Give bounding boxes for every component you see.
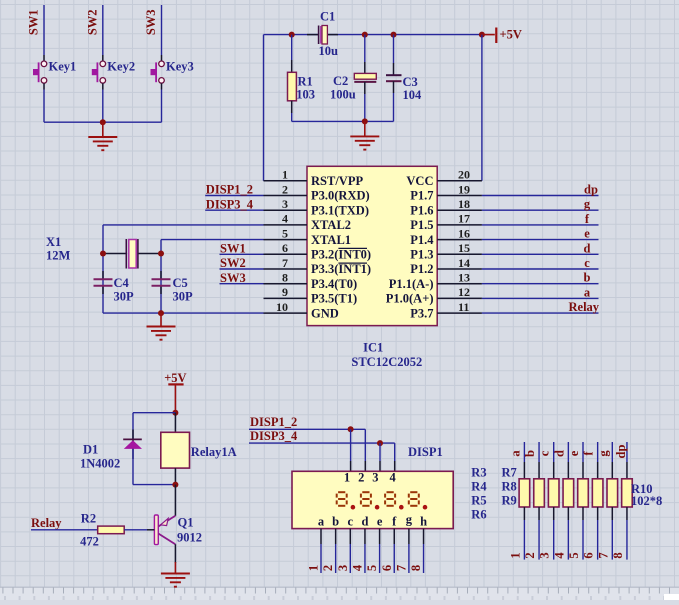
pin number 8 <box>282 271 288 285</box>
resistor R1 <box>288 35 297 122</box>
pin number 3 display bottom <box>336 565 350 571</box>
resistor network element 4 <box>563 479 574 507</box>
wire net g resistor 7 top <box>611 442 613 479</box>
node DISP3_4 display <box>250 429 298 443</box>
pin number 14 <box>458 256 470 270</box>
label SW1 <box>27 9 41 35</box>
pin number 4 <box>282 212 288 226</box>
svg-text:17: 17 <box>458 212 470 226</box>
wire SW1 bottom <box>43 83 45 122</box>
wire net SW1 <box>220 253 264 255</box>
wire net a <box>482 297 599 299</box>
node SW3 <box>220 271 246 285</box>
junction ground rail C2 <box>362 118 368 124</box>
wire relay to collector <box>174 485 176 516</box>
svg-text:7: 7 <box>394 565 408 571</box>
pin number 17 <box>458 212 470 226</box>
wire net DISP3_4 <box>205 209 263 211</box>
label SW2 <box>85 9 99 35</box>
wire display bottom pin 1 <box>320 529 322 573</box>
diode D1 <box>123 430 142 460</box>
label R1 value 103 <box>296 88 315 102</box>
pin number 2 display bottom <box>321 565 335 571</box>
svg-text:+5V: +5V <box>164 371 186 385</box>
ground crystal <box>147 313 176 340</box>
pin 8 stub <box>264 283 308 285</box>
svg-text:C4: C4 <box>114 276 130 290</box>
svg-text:P1.3: P1.3 <box>410 248 433 262</box>
wire net DISP1_2 display <box>249 428 365 430</box>
pin name f display bottom <box>392 515 397 529</box>
svg-text:g: g <box>406 513 413 527</box>
wire net c resistor 3 top <box>553 442 555 479</box>
node SW2 <box>220 256 246 270</box>
wire net a resistor 1 top <box>523 442 525 479</box>
label R10 <box>631 482 653 496</box>
label C2 value 100u <box>330 88 356 102</box>
pin name P1.7 <box>410 189 433 203</box>
svg-text:P1.6: P1.6 <box>410 203 433 217</box>
svg-text:D1: D1 <box>83 443 98 457</box>
pin number 8 display bottom <box>409 565 423 571</box>
wire R2 to base <box>124 529 154 531</box>
wire net f <box>482 224 599 226</box>
pin number 4 network bottom <box>552 552 566 559</box>
label R1 <box>298 74 313 88</box>
svg-text:C5: C5 <box>173 276 188 290</box>
pin number 6 network bottom <box>582 552 596 558</box>
svg-text:Key1: Key1 <box>49 59 77 73</box>
label X1 <box>46 235 61 249</box>
pin name g display bottom <box>406 513 413 527</box>
resistor network element 6 <box>592 479 603 507</box>
ground decoupling <box>350 121 379 149</box>
svg-text:4: 4 <box>350 564 364 571</box>
svg-text:XTAL2: XTAL2 <box>311 218 351 232</box>
pin number 6 display bottom <box>380 565 394 571</box>
junction DISP1_2 <box>348 426 354 432</box>
svg-text:4: 4 <box>552 552 566 559</box>
pin 9 stub <box>264 297 308 299</box>
label R3 <box>471 466 486 480</box>
pin number 7 display bottom <box>394 565 408 571</box>
wire display pin 2 <box>364 429 366 471</box>
wire display bottom pin 4 <box>364 529 366 573</box>
pin 5 stub <box>264 239 308 241</box>
pin number 18 <box>458 197 470 211</box>
wire relay top branch <box>133 413 175 439</box>
switch Key3 <box>151 61 165 83</box>
svg-text:6: 6 <box>282 241 288 255</box>
pin number 10 <box>276 300 288 314</box>
pin number 2 network bottom <box>523 552 537 558</box>
wire SW2 top <box>102 5 104 61</box>
wire +5V rail right segment <box>327 34 482 36</box>
svg-text:5: 5 <box>567 552 581 558</box>
label C3 value 104 <box>403 88 423 102</box>
svg-text:g: g <box>584 197 591 211</box>
svg-text:P1.4: P1.4 <box>410 233 434 247</box>
pin number 2 <box>282 182 288 196</box>
svg-text:R6: R6 <box>471 508 486 522</box>
pin name P3.2(INT0) <box>311 248 371 262</box>
svg-text:R7: R7 <box>502 466 517 480</box>
svg-text:b: b <box>584 271 591 285</box>
junction rail C3 <box>391 32 397 38</box>
capacitor C4 <box>94 271 113 294</box>
node c <box>584 256 590 270</box>
svg-text:C1: C1 <box>320 10 335 24</box>
junction relay bottom <box>172 482 178 488</box>
node SW1 <box>220 242 246 256</box>
svg-text:SW3: SW3 <box>220 271 246 285</box>
wire display bottom pin 8 <box>423 529 425 573</box>
node g <box>584 197 591 211</box>
pin name a display bottom <box>318 515 325 529</box>
wire net SW3 <box>220 283 264 285</box>
pin number 8 network bottom <box>611 552 625 558</box>
svg-text:SW2: SW2 <box>85 9 99 35</box>
svg-text:SW3: SW3 <box>144 9 158 35</box>
svg-text:P3.1(TXD): P3.1(TXD) <box>311 203 369 217</box>
svg-text:4: 4 <box>282 212 288 226</box>
wire +5V rail left segment <box>264 34 319 36</box>
svg-text:P3.0(RXD): P3.0(RXD) <box>311 189 370 203</box>
node e network <box>567 450 581 456</box>
svg-text:11: 11 <box>458 300 469 314</box>
wire Relay to R2 <box>31 529 98 531</box>
wire resistor 2 bottom <box>538 507 540 560</box>
svg-text:e: e <box>377 515 383 529</box>
resistor network element 5 <box>578 479 589 507</box>
wire SW2 bottom <box>102 83 104 122</box>
resistor network element 1 <box>519 479 530 507</box>
svg-text:c: c <box>348 515 354 529</box>
svg-text:8: 8 <box>282 271 288 285</box>
svg-text:VCC: VCC <box>406 174 433 188</box>
svg-text:13: 13 <box>458 271 470 285</box>
seven-segment digit 1 <box>337 492 347 506</box>
transistor Q1 <box>154 515 175 545</box>
svg-text:R5: R5 <box>471 494 486 508</box>
node d network <box>552 450 566 457</box>
svg-text:2: 2 <box>282 182 288 196</box>
svg-text:6: 6 <box>380 565 394 571</box>
pin name XTAL2 <box>311 218 351 232</box>
pin name P1.5 <box>410 218 433 232</box>
junction crystal right <box>158 251 164 257</box>
pin number 5 display bottom <box>365 565 379 571</box>
pin name P1.3 <box>410 248 433 262</box>
svg-text:Key2: Key2 <box>107 59 135 73</box>
switch Key1 <box>33 61 47 83</box>
svg-text:7: 7 <box>596 552 610 558</box>
switch Key2 <box>92 61 106 83</box>
resistor network element 3 <box>548 479 559 507</box>
node g network <box>596 450 610 457</box>
display DISP1 body <box>292 471 453 528</box>
label C1 value 10u <box>319 44 339 58</box>
svg-text:e: e <box>567 450 581 456</box>
svg-text:P1.0(A+): P1.0(A+) <box>386 292 434 306</box>
wire display bottom pin 7 <box>408 529 410 573</box>
wire net DISP1_2 <box>205 195 263 197</box>
label R8 <box>502 480 517 494</box>
svg-text:SW1: SW1 <box>27 9 41 35</box>
svg-text:5: 5 <box>282 226 288 240</box>
svg-text:GND: GND <box>311 306 339 320</box>
svg-text:3: 3 <box>538 552 552 558</box>
svg-text:P3.2(INT0): P3.2(INT0) <box>311 248 371 262</box>
svg-text:dp: dp <box>614 445 628 459</box>
label R7 <box>502 466 517 480</box>
junction rail R1 <box>289 32 295 38</box>
label SW3 <box>144 9 158 35</box>
decimal point 4 <box>423 505 428 510</box>
svg-text:20: 20 <box>458 168 470 182</box>
svg-text:100u: 100u <box>330 88 356 102</box>
decimal point 2 <box>375 505 380 510</box>
node Relay <box>31 516 62 530</box>
pin number 4 display top <box>389 470 396 484</box>
wire collector to ground <box>174 544 176 563</box>
svg-text:1: 1 <box>508 552 522 558</box>
wire net e resistor 5 top <box>582 442 584 479</box>
pin 18 stub <box>437 209 482 211</box>
svg-text:c: c <box>584 256 590 270</box>
pin number 1 <box>282 168 288 182</box>
svg-text:14: 14 <box>458 256 470 270</box>
label R10 value 102*8 <box>631 494 662 508</box>
svg-text:R8: R8 <box>502 480 517 494</box>
seven-segment digit 3 <box>385 492 395 506</box>
svg-text:d: d <box>584 241 591 255</box>
pin name GND <box>311 306 339 320</box>
pin number 1 display bottom <box>307 565 321 571</box>
capacitor C3 <box>386 35 402 122</box>
pin name e display bottom <box>377 515 383 529</box>
node b <box>584 271 591 285</box>
pin name c display bottom <box>348 515 354 529</box>
svg-text:DISP3_4: DISP3_4 <box>250 429 298 443</box>
wire net f resistor 6 top <box>597 442 599 479</box>
pin name P3.0(RXD) <box>311 189 370 203</box>
wire display pin 1 <box>350 429 352 471</box>
pin name P3.3(INT1) <box>311 262 371 276</box>
pin name P1.4 <box>410 233 434 247</box>
decimal point 3 <box>399 505 404 510</box>
svg-text:12: 12 <box>458 285 470 299</box>
wire net e <box>482 239 599 241</box>
svg-text:9012: 9012 <box>177 530 202 544</box>
svg-text:DISP1: DISP1 <box>408 445 443 459</box>
label IC1 <box>363 341 383 355</box>
svg-text:g: g <box>596 450 610 457</box>
label Relay1A <box>191 445 237 459</box>
pin number 9 <box>282 285 288 299</box>
pin name P3.4(T0) <box>311 277 357 291</box>
svg-text:19: 19 <box>458 182 470 196</box>
pin 10 stub <box>264 312 308 314</box>
wire net dp resistor 8 top <box>626 442 628 479</box>
pin 14 stub <box>437 268 482 270</box>
pin name XTAL1 <box>311 233 351 247</box>
node DISP1_2 display <box>250 415 297 429</box>
wire resistor 6 bottom <box>597 507 599 560</box>
node DISP3_4 <box>206 197 254 211</box>
pin 11 stub <box>437 312 482 314</box>
svg-text:P3.5(T1): P3.5(T1) <box>311 292 357 306</box>
pin number 16 <box>458 226 470 240</box>
svg-text:P1.2: P1.2 <box>410 262 433 276</box>
node c network <box>538 450 552 456</box>
pin number 5 network bottom <box>567 552 581 558</box>
wire net d <box>482 253 599 255</box>
pin 1 stub <box>264 180 308 182</box>
wire resistor 1 bottom <box>523 507 525 560</box>
wire display bottom pin 2 <box>335 529 337 573</box>
pin name P1.1(A-) <box>389 277 434 291</box>
label C4 value 30P <box>114 290 135 304</box>
crystal X1 <box>103 239 161 269</box>
svg-text:R9: R9 <box>502 494 517 508</box>
svg-text:STC12C2052: STC12C2052 <box>351 355 422 369</box>
svg-text:6: 6 <box>582 552 596 558</box>
capacitor C1 <box>307 26 338 45</box>
pin name P1.6 <box>410 203 433 217</box>
wire resistor 5 bottom <box>582 507 584 560</box>
junction DISP3_4 <box>377 440 383 446</box>
pin name b display bottom <box>332 515 339 529</box>
svg-text:a: a <box>318 515 325 529</box>
svg-text:16: 16 <box>458 226 470 240</box>
svg-text:DISP1_2: DISP1_2 <box>206 183 253 197</box>
svg-text:1N4002: 1N4002 <box>80 457 120 471</box>
svg-text:1: 1 <box>282 168 288 182</box>
svg-text:103: 103 <box>296 88 315 102</box>
label R4 <box>471 480 487 494</box>
label R5 <box>471 494 486 508</box>
resistor network element 2 <box>534 479 545 507</box>
svg-text:IC1: IC1 <box>363 341 383 355</box>
svg-text:30P: 30P <box>173 290 194 304</box>
label C1 <box>320 10 335 24</box>
pin number 2 display top <box>358 470 364 484</box>
svg-text:DISP1_2: DISP1_2 <box>250 415 297 429</box>
svg-text:10u: 10u <box>319 44 339 58</box>
node a <box>584 285 591 299</box>
relay Relay1A <box>161 413 190 485</box>
svg-text:dp: dp <box>584 183 598 197</box>
label D1 value 1N4002 <box>80 457 120 471</box>
svg-text:104: 104 <box>403 88 423 102</box>
resistor network element 8 <box>622 479 633 507</box>
wire XTAL1 pin 5 <box>161 240 264 314</box>
pin name VCC <box>406 174 433 188</box>
label Q1 value 9012 <box>177 530 202 544</box>
junction crystal left <box>100 251 106 257</box>
svg-text:R4: R4 <box>471 480 487 494</box>
label C5 <box>173 276 188 290</box>
pin number 11 <box>458 300 469 314</box>
label C2 <box>333 74 348 88</box>
wire decoupling ground rail <box>292 120 394 122</box>
junction switch bus <box>100 119 106 125</box>
wire rail to pin 1 <box>263 35 265 181</box>
junction relay top <box>172 410 178 416</box>
node DISP1_2 <box>206 183 253 197</box>
svg-text:P3.4(T0): P3.4(T0) <box>311 277 357 291</box>
node f network <box>582 451 596 456</box>
pin number 15 <box>458 241 470 255</box>
wire resistor 3 bottom <box>553 507 555 560</box>
seven-segment digit 4 <box>409 492 419 506</box>
svg-text:8: 8 <box>409 565 423 571</box>
svg-text:XTAL1: XTAL1 <box>311 233 351 247</box>
resistor network element 7 <box>607 479 618 507</box>
label D1 <box>83 443 98 457</box>
svg-text:1: 1 <box>307 565 321 571</box>
wire switch bus <box>44 121 162 123</box>
label DISP1 <box>408 445 443 459</box>
pin name P3.7 <box>410 306 433 320</box>
wire resistor 8 bottom <box>626 507 628 560</box>
svg-text:R3: R3 <box>471 466 486 480</box>
node dp network <box>614 445 628 459</box>
wire display bottom pin 5 <box>379 529 381 573</box>
pin 7 stub <box>264 268 308 270</box>
ground switches <box>88 122 117 150</box>
pin 19 stub <box>437 195 482 197</box>
pin 3 stub <box>264 209 308 211</box>
wire resistor 4 bottom <box>567 507 569 560</box>
pin 4 stub <box>264 224 308 226</box>
power +5V top <box>482 28 522 44</box>
pin number 20 <box>458 168 470 182</box>
wire display bottom pin 6 <box>393 529 395 573</box>
svg-text:472: 472 <box>80 535 99 549</box>
wire display pin 4 <box>394 443 396 471</box>
node f <box>585 212 590 226</box>
pin 6 stub <box>264 253 308 255</box>
wire display bottom pin 3 <box>349 529 351 573</box>
pin number 6 <box>282 241 288 255</box>
node d <box>584 241 591 255</box>
svg-text:Relay: Relay <box>31 516 62 530</box>
pin number 19 <box>458 182 470 196</box>
wire XTAL2 pin 4 <box>103 225 264 313</box>
svg-text:RST/VPP: RST/VPP <box>311 174 363 188</box>
ground transistor <box>161 562 190 587</box>
svg-text:1: 1 <box>344 470 350 484</box>
wire display pin 3 <box>379 443 381 471</box>
svg-text:Key3: Key3 <box>166 59 194 73</box>
svg-text:Relay: Relay <box>569 300 600 314</box>
svg-text:c: c <box>538 450 552 456</box>
svg-text:18: 18 <box>458 197 470 211</box>
pin name P3.5(T1) <box>311 292 357 306</box>
pin 12 stub <box>437 297 482 299</box>
pin number 7 network bottom <box>596 552 610 558</box>
label C4 <box>114 276 130 290</box>
seven-segment digit 2 <box>361 492 371 506</box>
capacitor C5 <box>152 271 171 294</box>
pin 15 stub <box>437 253 482 255</box>
decimal point 1 <box>351 505 356 510</box>
pin 17 stub <box>437 224 482 226</box>
label R6 <box>471 508 486 522</box>
node e <box>584 227 590 241</box>
